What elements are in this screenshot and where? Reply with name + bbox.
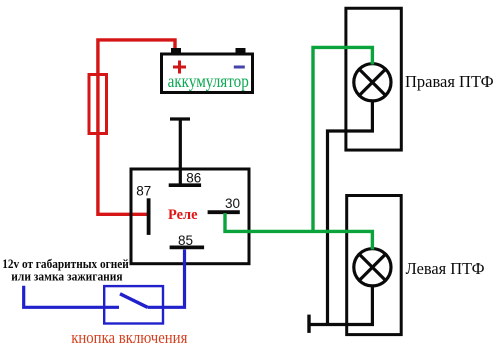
wire: blue feed from 12v source to switch (24, 286, 119, 308)
battery terminal - (right post) (236, 48, 246, 54)
svg-text:кнопка включения: кнопка включения (71, 328, 188, 347)
svg-text:Правая ПТФ: Правая ПТФ (405, 72, 494, 91)
lamp HL2 enclosure (left fog light box) (347, 196, 402, 335)
relay pin 87 contact bar (147, 198, 151, 235)
wire: blue from switch to relay pin 85 (148, 250, 185, 308)
svg-text:86: 86 (186, 171, 201, 186)
switch SA1 blade (open contact) (120, 294, 148, 308)
wire: green from relay pin 30 to lamp HL2 (225, 213, 372, 250)
svg-text:85: 85 (178, 233, 193, 248)
svg-text:30: 30 (225, 196, 240, 211)
wire: black return from lamp HL1 down to ground rail (328, 100, 373, 325)
ground bar (307, 315, 310, 333)
battery terminal + (left post) (171, 48, 181, 54)
relay K1 body (131, 169, 249, 264)
svg-text:Реле: Реле (168, 207, 198, 223)
lamp HL1 (right fog light bulb) (354, 64, 391, 101)
relay pin 86 coil bar (169, 183, 201, 187)
wire: black return from lamp HL2 to ground rail (309, 285, 372, 325)
wire: red from battery + terminal down-left through fuse to relay pin 87 (98, 40, 175, 214)
switch SA1 box (104, 286, 163, 323)
relay pin 30 contact bar (208, 210, 240, 214)
svg-text:87: 87 (136, 184, 151, 199)
svg-text:Левая ПТФ: Левая ПТФ (406, 259, 485, 278)
svg-text:аккумулятор: аккумулятор (168, 71, 249, 91)
svg-text:или замка зажигания: или замка зажигания (11, 268, 122, 283)
lamp HL2 (left fog light bulb) (354, 249, 391, 286)
battery + symbol (173, 61, 186, 74)
lamp HL1 enclosure (right fog light box) (346, 8, 401, 150)
relay pin 85 coil bar (170, 245, 205, 249)
battery - symbol (234, 66, 245, 69)
wire: green branch up to lamp HL1 (313, 47, 372, 231)
battery GB1 body (162, 54, 253, 93)
fuse F1 (89, 75, 107, 134)
relay pin 86 terminal (T-topped stem into coil bar) (170, 119, 190, 184)
